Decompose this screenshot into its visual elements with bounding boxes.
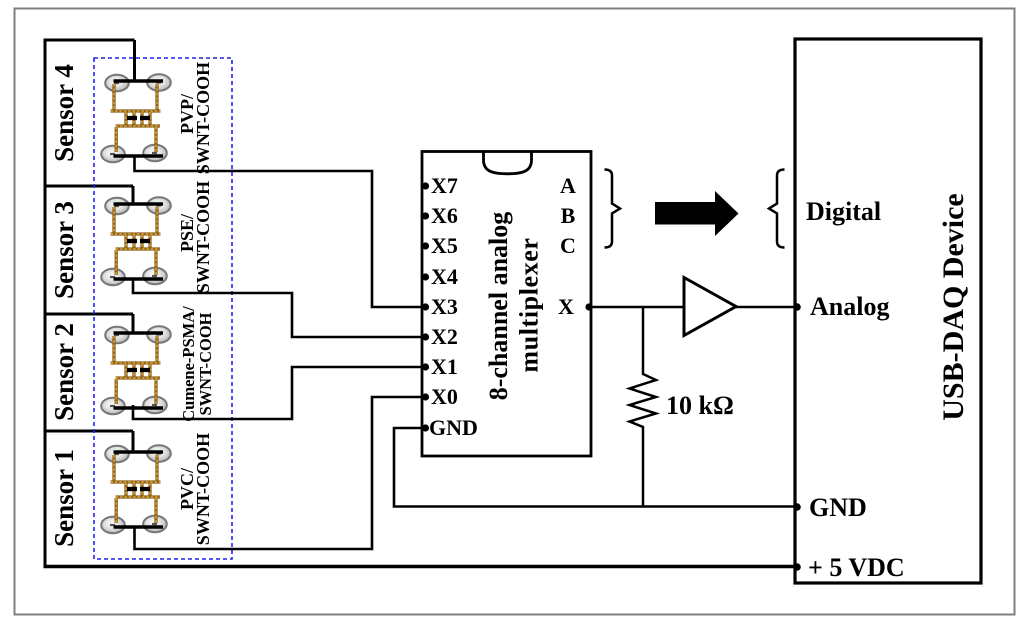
wire sensor 2 to mux pin X1 <box>133 367 422 419</box>
resistor R 10k with leads <box>630 307 657 506</box>
svg-text:GND: GND <box>429 415 478 440</box>
wire sensor2 box to sensor2 top contact <box>132 314 135 333</box>
wire mux GND pin to USB-DAQ GND <box>394 428 797 507</box>
svg-text:X1: X1 <box>431 354 458 379</box>
svg-text:X7: X7 <box>431 173 458 198</box>
wire buffer to USB-DAQ Analog <box>736 306 797 309</box>
multiplexer U1 body <box>422 151 591 456</box>
sensor 2/1 box separator <box>44 430 134 433</box>
svg-text:X2: X2 <box>431 324 458 349</box>
sensor chip of Sensor 4 <box>101 74 171 162</box>
brace right of ABC <box>605 170 621 248</box>
svg-text:Sensor 2: Sensor 2 <box>49 323 79 421</box>
svg-text:B: B <box>561 203 576 228</box>
wire sensor 4 to mux pin X3 <box>135 156 423 307</box>
svg-text:C: C <box>560 233 576 258</box>
svg-text:Sensor 4: Sensor 4 <box>49 64 79 162</box>
svg-text:GND: GND <box>809 493 867 522</box>
digital bus arrow <box>655 191 739 236</box>
svg-text:multiplexer: multiplexer <box>515 237 544 372</box>
svg-text:SWNT-COOH: SWNT-COOH <box>193 181 213 293</box>
sensor chip of Sensor 2 <box>101 326 171 414</box>
USB-DAQ device box <box>795 39 981 583</box>
sensor 4 box top edge <box>44 39 135 42</box>
+5 VDC wire / sensor 1 box bottom edge <box>44 565 798 569</box>
svg-text:SWNT-COOH: SWNT-COOH <box>196 312 215 415</box>
svg-text:X6: X6 <box>431 203 458 228</box>
svg-text:SWNT-COOH: SWNT-COOH <box>193 62 213 174</box>
wire sensor3 box to sensor3 top contact <box>132 186 135 204</box>
svg-text:Sensor 3: Sensor 3 <box>49 201 79 299</box>
sensor 3/2 box separator <box>44 313 134 316</box>
GND pin dot <box>793 503 801 511</box>
svg-text:Digital: Digital <box>806 197 881 226</box>
mux X output pin dot <box>585 303 592 310</box>
+5 VDC pin dot <box>793 563 801 571</box>
wire sensor1 box to sensor1 top contact <box>132 431 135 452</box>
svg-text:Sensor 1: Sensor 1 <box>49 449 79 547</box>
wire mux X to buffer <box>591 306 684 309</box>
mux pin-1 notch <box>484 152 532 174</box>
buffer op-amp triangle <box>684 278 736 336</box>
svg-text:+ 5 VDC: + 5 VDC <box>808 553 905 582</box>
wire sensor 1 to mux pin X0 <box>135 397 423 549</box>
Analog pin dot <box>793 303 801 311</box>
svg-text:X: X <box>558 294 574 319</box>
sensor chip of Sensor 1 <box>101 445 171 533</box>
svg-text:X5: X5 <box>431 233 458 258</box>
brace left of Digital <box>769 170 785 248</box>
sensor 4/3 box separator <box>44 185 134 188</box>
svg-text:X4: X4 <box>431 264 458 289</box>
svg-text:SWNT-COOH: SWNT-COOH <box>193 433 213 545</box>
wire sensor4 box to sensor4 top contact <box>133 40 136 81</box>
svg-text:X0: X0 <box>431 384 458 409</box>
sensor column left edge <box>44 39 47 567</box>
mux left pin dots <box>422 182 429 431</box>
svg-text:Analog: Analog <box>810 292 889 321</box>
svg-text:X3: X3 <box>431 294 458 319</box>
svg-text:8-channel analog: 8-channel analog <box>484 212 513 401</box>
sensor graphics (4 interdigitated SWNT sensor chips) <box>101 74 171 533</box>
wire sensor 3 to mux pin X2 <box>133 279 422 337</box>
svg-text:USB-DAQ Device: USB-DAQ Device <box>937 193 970 420</box>
sensor chip of Sensor 3 <box>101 197 171 285</box>
dashed selection box around sensors <box>94 58 232 559</box>
sensor array left column boxes <box>44 39 135 567</box>
svg-text:10 kΩ: 10 kΩ <box>666 391 734 420</box>
svg-text:A: A <box>560 173 576 198</box>
